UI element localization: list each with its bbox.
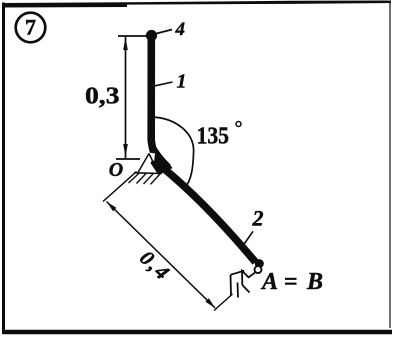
svg-text:7: 7 — [25, 15, 36, 40]
svg-text:B: B — [306, 269, 323, 295]
support post middle at A — [237, 283, 240, 298]
dimension 0,4 extension line at A — [214, 294, 233, 311]
dimension 0,3 up arrowhead — [123, 37, 128, 50]
dimension 0,3 down arrowhead — [123, 144, 128, 157]
leader tick to label 1 — [155, 82, 173, 86]
svg-text:4: 4 — [175, 19, 186, 40]
pivot triangle white interior — [150, 153, 156, 161]
dimension text 0,4 — [135, 246, 174, 285]
pivot hatch 4 — [151, 174, 161, 184]
dimension 0,4 line — [107, 202, 216, 308]
leader tick to label 4 — [157, 30, 173, 34]
pin circle at A — [255, 266, 262, 273]
frame left border — [2, 3, 5, 335]
dimension 0,4 lower arrowhead — [205, 298, 215, 308]
angle arc 135 — [151, 117, 194, 189]
dimension 0,3 line — [125, 37, 127, 159]
svg-text:A: A — [260, 269, 278, 295]
svg-text:=: = — [284, 269, 298, 295]
frame top border — [2, 1, 391, 8]
pivot hatch 2 — [137, 174, 147, 184]
badge circle 7 — [16, 13, 46, 43]
dimension 0,4 extension line at O — [103, 172, 137, 202]
pivot hatch 1 — [129, 173, 140, 183]
svg-text:0,3: 0,3 — [85, 84, 120, 110]
frame right border — [389, 2, 391, 329]
support surface line at A — [231, 271, 245, 275]
pivot hatch 3 — [144, 174, 154, 184]
pivot triangle — [138, 154, 158, 173]
svg-text:O: O — [109, 159, 123, 181]
ball 4 (sphere at top of rod 1) — [146, 30, 157, 41]
leader tick to label 2 — [244, 231, 254, 245]
rod 2 end blob — [255, 259, 264, 268]
pivot ground line — [134, 172, 162, 175]
svg-text:2: 2 — [252, 206, 264, 231]
rod 1 (vertical) bending into rod 2 — [151, 37, 255, 262]
rod bend fill wedge — [152, 144, 173, 170]
svg-text:135: 135 — [197, 123, 230, 149]
dimension 0,3 top tick — [118, 35, 150, 37]
support hatch at A — [242, 285, 249, 293]
svg-text:1: 1 — [177, 71, 187, 93]
support post left at A — [230, 275, 233, 295]
frame bottom border — [3, 330, 393, 335]
degree symbol — [236, 122, 241, 127]
dimension 0,4 upper arrowhead — [107, 202, 117, 212]
dimension 0,3 bottom tick — [116, 158, 140, 160]
support zigzag at A — [242, 271, 255, 285]
rod bend lower-left fill — [151, 161, 164, 175]
